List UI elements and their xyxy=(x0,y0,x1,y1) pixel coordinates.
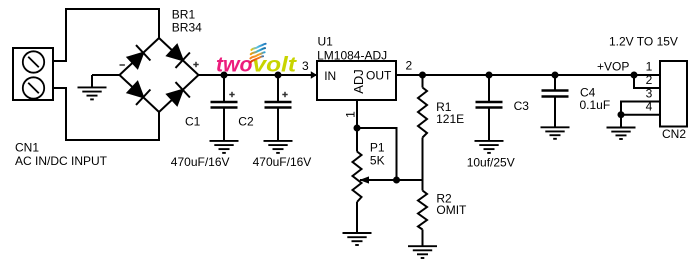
svg-text:3: 3 xyxy=(302,59,309,73)
svg-text:5K: 5K xyxy=(370,154,385,168)
svg-text:121E: 121E xyxy=(436,112,464,126)
svg-text:2: 2 xyxy=(406,59,413,73)
svg-text:2: 2 xyxy=(646,73,653,87)
svg-text:P1: P1 xyxy=(370,141,385,155)
svg-text:LM1084-ADJ: LM1084-ADJ xyxy=(317,48,387,62)
svg-text:CN2: CN2 xyxy=(662,127,686,141)
svg-text:470uF/16V: 470uF/16V xyxy=(253,155,312,169)
svg-text:C2: C2 xyxy=(238,114,254,128)
svg-text:+VOP: +VOP xyxy=(597,59,629,73)
svg-text:C3: C3 xyxy=(514,99,530,113)
svg-text:1.2V TO 15V: 1.2V TO 15V xyxy=(609,34,678,48)
svg-text:IN: IN xyxy=(324,69,336,83)
svg-text:3: 3 xyxy=(646,86,653,100)
svg-text:OMIT: OMIT xyxy=(436,203,467,217)
svg-text:OUT: OUT xyxy=(366,69,392,83)
svg-text:4: 4 xyxy=(646,100,653,114)
svg-text:0.1uF: 0.1uF xyxy=(580,98,611,112)
svg-text:CN1: CN1 xyxy=(15,140,39,154)
svg-text:1: 1 xyxy=(344,111,358,118)
svg-text:C1: C1 xyxy=(185,115,201,129)
svg-text:U1: U1 xyxy=(318,35,334,49)
svg-text:10uf/25V: 10uf/25V xyxy=(467,156,515,170)
svg-text:AC IN/DC INPUT: AC IN/DC INPUT xyxy=(15,154,108,168)
svg-text:470uF/16V: 470uF/16V xyxy=(171,155,230,169)
svg-text:two: two xyxy=(216,54,253,77)
svg-text:ADJ: ADJ xyxy=(351,69,366,94)
svg-text:BR34: BR34 xyxy=(172,21,202,35)
svg-text:1: 1 xyxy=(646,59,653,73)
